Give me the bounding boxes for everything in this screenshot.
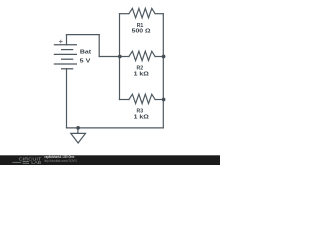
watermark bar bbox=[0, 155, 220, 165]
wire R1 left lead bbox=[120, 13, 129, 15]
wire right rail bbox=[162, 14, 164, 128]
CircuitLab logo bbox=[12, 156, 41, 165]
battery polarity plus bbox=[59, 40, 63, 44]
wire into left rail bbox=[99, 56, 119, 58]
wire R3 right lead bbox=[155, 99, 163, 101]
wire battery negative terminal down bbox=[66, 69, 68, 128]
wire R2 right lead bbox=[155, 56, 163, 58]
wire R2 left lead bbox=[120, 56, 129, 58]
wire down segment bbox=[98, 35, 100, 57]
wire battery positive terminal up bbox=[66, 35, 68, 45]
wire top horizontal from battery bbox=[67, 34, 100, 36]
wire left rail bbox=[119, 14, 121, 100]
wire R1 right lead bbox=[155, 13, 163, 15]
svg-text:1 kΩ: 1 kΩ bbox=[134, 72, 150, 78]
resistor R3 bbox=[129, 94, 155, 103]
resistor R1 bbox=[129, 8, 155, 17]
svg-text:http://circuitlab.com/c/747b74: http://circuitlab.com/c/747b74 bbox=[44, 159, 77, 163]
battery Bat plates bbox=[54, 45, 77, 69]
svg-text:LAB: LAB bbox=[31, 160, 41, 165]
wire ground stub bbox=[77, 128, 79, 133]
ground bbox=[71, 133, 86, 143]
node junction dot ground bbox=[76, 126, 80, 130]
svg-text:5 V: 5 V bbox=[80, 58, 91, 64]
svg-text:Bat: Bat bbox=[80, 50, 91, 56]
node junction dot right rail / R3 bbox=[162, 98, 166, 102]
wire R3 left lead bbox=[120, 99, 129, 101]
svg-text:1 kΩ: 1 kΩ bbox=[134, 115, 150, 121]
resistor R2 bbox=[129, 51, 155, 60]
svg-text:500 Ω: 500 Ω bbox=[132, 29, 151, 35]
wire bottom horizontal bbox=[67, 127, 164, 129]
node junction dot left rail / R2 bbox=[118, 55, 122, 59]
node junction dot right rail / R2 bbox=[162, 55, 166, 59]
